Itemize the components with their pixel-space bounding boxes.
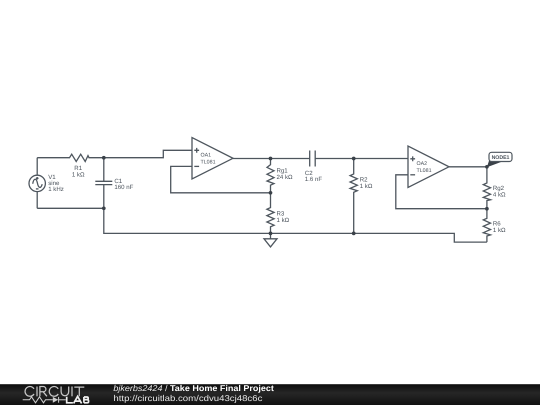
svg-text:http://circuitlab.com/cdvu43cj: http://circuitlab.com/cdvu43cj48c6c — [113, 393, 262, 403]
svg-text:160 nF: 160 nF — [114, 184, 133, 191]
svg-text:bjkerbs2424 / Take Home Final: bjkerbs2424 / Take Home Final Project — [113, 383, 274, 393]
svg-text:1 kΩ: 1 kΩ — [493, 227, 506, 234]
svg-text:TL081: TL081 — [201, 160, 216, 166]
svg-text:4 kΩ: 4 kΩ — [493, 192, 506, 199]
svg-text:OA1: OA1 — [201, 152, 212, 158]
svg-text:1 kΩ: 1 kΩ — [277, 217, 290, 224]
svg-text:1.6 nF: 1.6 nF — [305, 176, 323, 183]
svg-text:24 kΩ: 24 kΩ — [277, 174, 294, 181]
svg-text:1 kΩ: 1 kΩ — [72, 171, 85, 178]
svg-text:1 kΩ: 1 kΩ — [360, 183, 373, 190]
svg-text:NODE1: NODE1 — [492, 155, 510, 161]
svg-text:TL081: TL081 — [417, 168, 432, 174]
svg-text:OA2: OA2 — [417, 161, 428, 167]
svg-text:1 kHz: 1 kHz — [48, 186, 64, 193]
